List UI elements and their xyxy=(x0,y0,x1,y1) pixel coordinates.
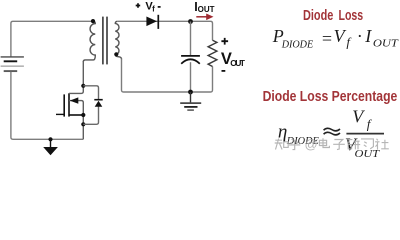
ground (output side) bars xyxy=(180,102,201,104)
svg-text:f: f xyxy=(346,35,352,50)
MOSFET Q1 gate bar xyxy=(63,94,65,116)
capacitor C1 curved bottom plate xyxy=(181,59,200,63)
MOSFET Q1 drain lead and wire up to primary xyxy=(69,61,83,94)
svg-text:OUT: OUT xyxy=(355,149,381,160)
battery B1 plate short 2 xyxy=(4,60,18,62)
watermark char hu xyxy=(289,139,300,149)
battery B1 plate short bottom xyxy=(4,70,18,72)
wire battery bottom to ground rail xyxy=(11,72,83,140)
svg-text:f: f xyxy=(152,4,155,13)
svg-text:Diode: Diode xyxy=(303,8,333,24)
watermark char xi xyxy=(361,139,373,149)
svg-text:V: V xyxy=(334,26,347,46)
label plus for VOUT xyxy=(221,38,228,45)
ground arrow (primary side) xyxy=(50,139,52,147)
label minus for VOUT xyxy=(222,70,226,72)
wire junction to capacitor xyxy=(190,22,192,56)
svg-text:·: · xyxy=(357,26,362,46)
transformer core line right xyxy=(106,17,108,65)
capacitor C1 top plate xyxy=(181,55,200,57)
transformer T1 secondary winding xyxy=(115,21,121,59)
MOSFET Q1 body arrow line down to rail xyxy=(69,101,83,140)
wire body diode branch bottom xyxy=(83,107,98,125)
svg-text:Loss: Loss xyxy=(339,8,364,24)
battery B1 plate long top xyxy=(1,56,24,58)
watermark zhihu xyxy=(275,137,389,152)
svg-text:=: = xyxy=(321,29,333,49)
node ground-rail junction xyxy=(48,137,52,141)
svg-text:f: f xyxy=(367,117,373,132)
watermark char dian xyxy=(319,138,329,147)
watermark char yan xyxy=(347,140,360,150)
polarity dot primary xyxy=(91,19,95,23)
label + Vf - : plus sign xyxy=(136,3,141,8)
MOSFET Q1 channel bar xyxy=(68,93,70,116)
node drain junction xyxy=(81,84,85,88)
ground (output side) stub xyxy=(190,92,192,103)
watermark char zhi xyxy=(275,139,289,150)
approx sign xyxy=(324,128,340,131)
wire top-left from battery to transformer primary xyxy=(11,21,93,56)
battery B1 plate long 3 xyxy=(1,65,24,67)
wire secondary top to output (under diode) and down to resistor xyxy=(117,21,212,40)
MOSFET Q1 body arrow head xyxy=(70,97,79,103)
svg-text:@: @ xyxy=(305,137,318,152)
node output junction top xyxy=(188,19,193,24)
body diode D2 cathode bar xyxy=(94,99,102,101)
diode D1 output rectifier xyxy=(146,17,157,27)
wire body diode branch top xyxy=(83,86,98,100)
node bottom rail junction xyxy=(188,90,193,95)
fraction bar xyxy=(346,133,384,135)
svg-text:Diode Loss Percentage: Diode Loss Percentage xyxy=(263,89,398,105)
transformer core line left xyxy=(102,17,104,65)
IOUT red arrow xyxy=(196,16,207,18)
wire capacitor bottom to rail xyxy=(190,62,192,92)
wire secondary bottom rail to resistor bottom xyxy=(122,59,213,93)
svg-text:OUT: OUT xyxy=(198,5,215,14)
svg-text:V: V xyxy=(352,106,365,126)
MOSFET Q1 source lead xyxy=(69,114,83,116)
polarity dot secondary xyxy=(114,52,118,56)
svg-text:OUT: OUT xyxy=(230,58,246,68)
body diode D2 triangle xyxy=(95,101,103,107)
svg-text:I: I xyxy=(364,26,372,46)
resistor R1 load zigzag xyxy=(208,40,217,66)
node body-diode return junction xyxy=(81,122,85,126)
MOSFET Q1 gate lead xyxy=(56,113,64,115)
transformer T1 primary winding xyxy=(83,21,95,62)
label minus after Vf xyxy=(158,6,161,8)
watermark char she xyxy=(375,139,389,150)
node source junction xyxy=(81,113,85,117)
watermark char zi xyxy=(333,140,345,150)
svg-text:DIODE: DIODE xyxy=(281,39,314,50)
svg-text:OUT: OUT xyxy=(373,38,399,49)
